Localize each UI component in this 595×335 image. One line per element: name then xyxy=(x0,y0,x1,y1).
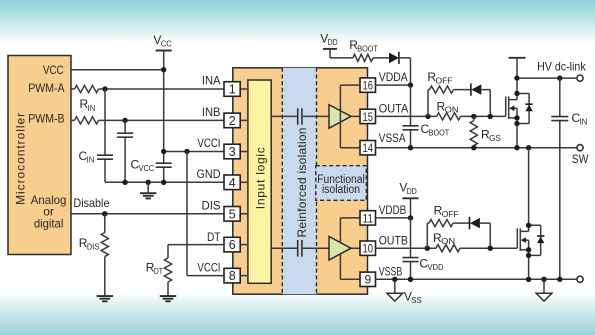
wire PWM-A xyxy=(71,88,225,90)
node SW / Q2 drain xyxy=(526,145,531,150)
node Q2 source / body diode xyxy=(526,253,531,258)
pin 8 VCCI xyxy=(197,260,240,283)
svg-text:ON: ON xyxy=(445,105,459,115)
pin 15 OUTA xyxy=(360,102,408,124)
svg-text:3: 3 xyxy=(229,145,236,159)
terminal HV dc-link circle xyxy=(577,75,583,81)
reinforced isolation barrier strip xyxy=(282,68,316,294)
wire VDDB pin11 to node xyxy=(375,217,410,219)
svg-text:CC: CC xyxy=(161,39,172,49)
node gate A junction xyxy=(488,114,493,119)
resistor R_ON (A) xyxy=(437,99,461,120)
pin 4 GND xyxy=(197,167,241,190)
diode body (Q1) xyxy=(517,94,533,124)
svg-text:OFF: OFF xyxy=(436,76,453,86)
supply terminal V_DD (bootstrap) xyxy=(320,32,337,49)
capacitor C_IN xyxy=(79,149,114,165)
supply terminal V_CC xyxy=(153,33,171,51)
wire DT to pin 6 xyxy=(168,244,225,246)
svg-text:Disable: Disable xyxy=(73,196,109,210)
node VSSB / C_VDD xyxy=(408,277,413,282)
svg-text:DD: DD xyxy=(407,186,417,196)
wire C_IN leg xyxy=(104,89,106,182)
node HV / Q1 drain xyxy=(514,75,519,80)
node Q1 source / body stub xyxy=(514,115,519,120)
svg-text:HV dc-link: HV dc-link xyxy=(537,59,586,73)
svg-text:ON: ON xyxy=(441,236,455,246)
resistor R_DIS xyxy=(79,214,109,296)
svg-text:10: 10 xyxy=(363,242,374,256)
wire C_VDD leg xyxy=(410,218,412,279)
ground power flag xyxy=(536,279,552,301)
resistor R_OFF (B) xyxy=(429,203,459,226)
ground symbol (R_DIS) xyxy=(97,296,113,301)
capacitor PWM-B filter xyxy=(117,133,133,137)
node ground stem / GND xyxy=(146,180,151,185)
resistor R_IN (PWM-B) xyxy=(75,117,99,124)
transistor Q2 low-side MOSFET xyxy=(517,148,528,280)
input logic block xyxy=(248,80,271,283)
svg-text:INA: INA xyxy=(202,74,221,88)
wire channel A input xyxy=(271,115,329,117)
svg-text:DIS: DIS xyxy=(87,242,100,252)
svg-text:isolation: isolation xyxy=(322,184,360,196)
svg-text:INB: INB xyxy=(202,105,221,119)
wire pin 2 stub xyxy=(240,119,248,121)
diode D_OFF (A) xyxy=(471,83,481,95)
ground V_SS flag xyxy=(387,279,422,305)
svg-text:11: 11 xyxy=(363,211,374,225)
wire VCCI to pin 8 xyxy=(187,275,225,277)
capacitor C_IN dc-link xyxy=(551,78,587,279)
wire V_CC rail xyxy=(163,51,165,183)
svg-text:14: 14 xyxy=(363,141,374,155)
svg-text:BOOT: BOOT xyxy=(357,44,378,54)
capacitor C_VCC xyxy=(131,158,172,174)
node Q2 source / body stub xyxy=(526,247,531,252)
pin 16 VDDA xyxy=(360,70,408,92)
svg-text:4: 4 xyxy=(229,176,236,190)
terminal SW circle xyxy=(572,145,589,167)
wire V_DD to VDDB node xyxy=(410,198,412,218)
node PWM-B filter junction xyxy=(122,118,127,123)
capacitor C_BOOT xyxy=(403,122,450,138)
svg-text:8: 8 xyxy=(229,269,236,283)
svg-text:Input logic: Input logic xyxy=(254,147,268,209)
pin 2 INB xyxy=(202,105,240,128)
node C_VCC / GND xyxy=(161,180,166,185)
svg-text:PWM-B: PWM-B xyxy=(28,112,64,126)
wire pin 1 stub xyxy=(240,88,248,90)
wire V_DD to R_BOOT xyxy=(330,49,390,58)
node VCC junction xyxy=(161,67,166,72)
svg-text:6: 6 xyxy=(229,238,236,252)
node VDDA xyxy=(408,82,413,87)
node C_IN filter / GND xyxy=(122,180,127,185)
op-amp U1 gate-driver IC outline xyxy=(233,68,368,294)
wire pin 8 stub xyxy=(240,275,248,277)
svg-text:DD: DD xyxy=(328,37,338,47)
wire buffer B supply rails xyxy=(340,218,360,279)
svg-text:VDDA: VDDA xyxy=(379,70,408,84)
svg-text:DT: DT xyxy=(207,230,221,244)
svg-text:OUTA: OUTA xyxy=(379,102,409,116)
svg-text:VCCI: VCCI xyxy=(197,136,220,150)
driver buffer A xyxy=(329,105,351,129)
driver buffer B xyxy=(329,237,351,261)
node VSSB / Q2 source xyxy=(526,277,531,282)
node VSSB / V_SS ground xyxy=(392,277,397,282)
node Q1 source / body diode xyxy=(514,121,519,126)
node VDDB xyxy=(408,215,413,220)
svg-text:GS: GS xyxy=(489,133,501,143)
functional isolation box xyxy=(316,166,367,201)
resistor R_IN (PWM-A) xyxy=(75,85,99,112)
wire SW rail (VSSA) xyxy=(375,147,577,149)
svg-text:VCC: VCC xyxy=(43,63,64,77)
svg-text:VCCI: VCCI xyxy=(197,260,220,274)
wire PWM-B xyxy=(71,119,225,121)
wire PWM-B filter cap leg xyxy=(124,120,126,182)
wire C_BOOT leg xyxy=(410,85,412,148)
node SW / C_BOOT xyxy=(408,145,413,150)
node Disable / R_DIS xyxy=(102,211,107,216)
svg-text:VDD: VDD xyxy=(428,262,444,272)
svg-text:SS: SS xyxy=(411,295,422,305)
svg-text:5: 5 xyxy=(229,207,236,221)
wire buffer A supply rails xyxy=(340,85,360,148)
node SW / R_GS xyxy=(471,145,476,150)
supply terminal V_DD (low side) xyxy=(399,180,418,198)
wire Disable to pin 5 xyxy=(71,196,225,214)
pin 10 OUTB xyxy=(360,233,408,255)
wire pin 4 stub xyxy=(240,181,248,183)
wire pin 5 stub xyxy=(240,213,248,215)
svg-text:VSSB: VSSB xyxy=(379,264,403,278)
svg-text:VDDB: VDDB xyxy=(379,203,406,217)
pin 3 VCCI xyxy=(197,136,240,159)
diode D_OFF (B) xyxy=(470,217,480,229)
pin 14 VSSA xyxy=(360,131,406,155)
resistor R_OFF (A) xyxy=(427,70,453,93)
node VCCI / V_CC rail xyxy=(161,149,166,154)
microcontroller box xyxy=(8,56,71,255)
svg-text:digital: digital xyxy=(34,216,64,230)
svg-text:SW: SW xyxy=(572,152,589,166)
node OUTB / R_OFF branch xyxy=(425,246,430,251)
svg-text:VSSA: VSSA xyxy=(379,131,406,145)
wire R_OFF branch B xyxy=(427,223,490,248)
wire D_BOOT to VDDA node xyxy=(399,58,411,85)
pin 9 VSSB xyxy=(360,264,402,286)
pin 1 INA xyxy=(202,74,240,97)
wire VSSB rail xyxy=(375,278,577,280)
svg-text:PWM-A: PWM-A xyxy=(28,81,64,95)
wire VCC from microcontroller xyxy=(71,69,164,71)
node Q1 drain / body diode xyxy=(514,91,519,96)
node R_GS top xyxy=(471,114,476,119)
ground symbol (logic GND) xyxy=(140,182,156,198)
node VSSB / power ground xyxy=(541,277,546,282)
resistor R_DT xyxy=(146,245,172,297)
terminal VSSB circle xyxy=(577,276,583,282)
svg-text:DT: DT xyxy=(154,266,163,276)
svg-text:BOOT: BOOT xyxy=(429,127,450,137)
transistor Q1 high-side MOSFET xyxy=(506,78,517,148)
capacitor isolation B xyxy=(298,240,302,257)
svg-text:GND: GND xyxy=(197,167,221,181)
node VSSB / C_IN dc-link xyxy=(557,277,562,282)
node OUTA / R_OFF branch xyxy=(425,114,430,119)
svg-text:1: 1 xyxy=(229,83,236,97)
svg-text:IN: IN xyxy=(580,117,588,127)
node PWM-A / C_IN junction xyxy=(102,86,107,91)
diode body (Q2) xyxy=(529,225,545,255)
svg-text:OFF: OFF xyxy=(442,209,459,219)
pin 5 DIS xyxy=(202,199,241,222)
wire R_OFF branch A xyxy=(428,90,490,117)
svg-text:Microcontroller: Microcontroller xyxy=(14,113,28,205)
svg-text:DIS: DIS xyxy=(202,199,221,213)
svg-text:2: 2 xyxy=(229,114,236,128)
wire OUTB xyxy=(375,247,517,249)
capacitor C_VDD xyxy=(403,256,444,272)
wire pin 3 stub xyxy=(240,151,248,153)
diode D_BOOT xyxy=(389,52,399,64)
capacitor isolation A xyxy=(298,108,302,125)
svg-text:9: 9 xyxy=(364,273,371,287)
node Q2 drain / body diode xyxy=(526,223,531,228)
pin 11 VDDB xyxy=(360,203,406,225)
svg-text:15: 15 xyxy=(363,110,374,124)
resistor R_ON (B) xyxy=(433,231,460,252)
svg-text:VCC: VCC xyxy=(139,163,155,173)
svg-text:IN: IN xyxy=(88,103,96,113)
wire channel B input xyxy=(271,247,329,249)
svg-text:16: 16 xyxy=(363,79,374,93)
wire VDDA pin16 to node xyxy=(375,84,410,86)
wire pin 6 stub xyxy=(240,244,248,246)
wire GND rail xyxy=(105,181,225,183)
ground symbol (R_DT) xyxy=(160,296,176,301)
node HV / C_IN dc-link xyxy=(557,75,562,80)
node gate B junction xyxy=(488,246,493,251)
wire OUTA xyxy=(375,115,505,117)
svg-text:Reinforced isolation: Reinforced isolation xyxy=(295,128,309,238)
wire VCCI to pin 3 xyxy=(164,151,225,153)
svg-text:OUTB: OUTB xyxy=(379,233,408,247)
supply terminal HV dc-link xyxy=(509,58,587,78)
pin 6 DT xyxy=(207,230,240,252)
resistor R_GS xyxy=(470,116,501,147)
wire HV dc-link rail xyxy=(517,77,577,79)
resistor R_BOOT xyxy=(349,38,378,62)
node SW / Q1 source xyxy=(514,145,519,150)
wire VCCI vertical pin3-pin8 xyxy=(186,152,188,276)
svg-text:IN: IN xyxy=(87,154,95,164)
node VCCI branch xyxy=(184,149,189,154)
